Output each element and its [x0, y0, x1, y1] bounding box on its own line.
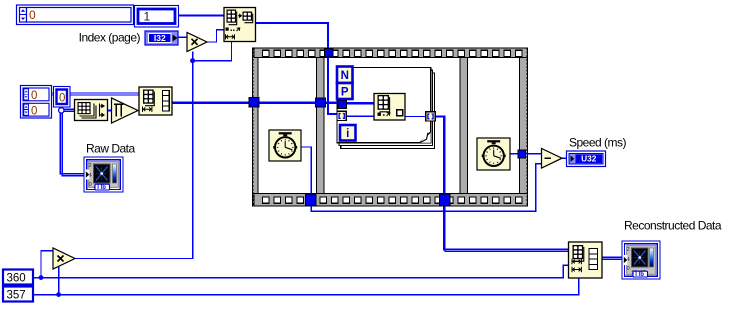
- svg-text:0: 0: [627, 266, 630, 272]
- svg-text:Reconstructed Data: Reconstructed Data: [624, 218, 722, 232]
- svg-text:I lb: I lb: [635, 272, 644, 278]
- svg-text:2: 2: [89, 163, 92, 169]
- svg-text:Speed (ms): Speed (ms): [569, 135, 627, 149]
- svg-text:0: 0: [29, 8, 36, 22]
- svg-text:0: 0: [31, 90, 37, 102]
- svg-text:I lb: I lb: [97, 185, 106, 191]
- svg-text:Index (page): Index (page): [79, 30, 141, 44]
- svg-text:N: N: [341, 70, 349, 82]
- svg-text:0: 0: [31, 105, 37, 117]
- svg-text:I32: I32: [154, 33, 166, 43]
- svg-text:i: i: [346, 128, 349, 140]
- svg-text:1: 1: [144, 10, 151, 24]
- svg-text:2: 2: [627, 247, 630, 253]
- svg-text:360: 360: [7, 273, 26, 285]
- svg-text:P: P: [341, 86, 349, 98]
- svg-text:0: 0: [59, 92, 65, 104]
- svg-text:U32: U32: [581, 154, 597, 164]
- svg-text:357: 357: [7, 290, 26, 302]
- svg-text:Raw Data: Raw Data: [86, 141, 136, 155]
- svg-text:0: 0: [89, 182, 92, 188]
